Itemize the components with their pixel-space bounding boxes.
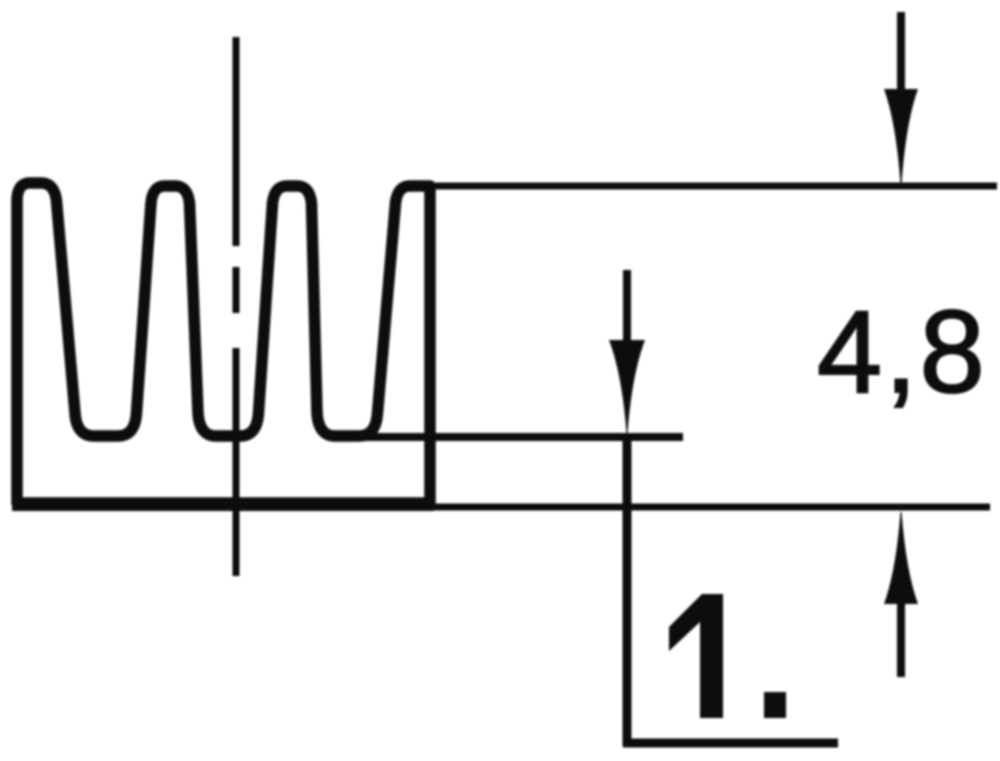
leader line horizontal (under label 1.): [623, 739, 838, 748]
dimension arrow, middle (points down to base top line): [609, 270, 645, 433]
centerline (vertical dash-dot axis): [233, 37, 240, 576]
label text 1. (drawn as paths, Arial-bold style digit without foot serif): [669, 594, 786, 718]
top extension line (fin top surface, extended right): [430, 183, 997, 190]
heatsink profile outline (cross-section with 4 fins): [17, 183, 430, 503]
slot-bottom extension line (base top surface): [350, 433, 683, 441]
bottom extension line (base bottom surface, extended right): [430, 504, 990, 511]
profile bottom edge reinforcement (thicker base line): [12, 498, 434, 511]
svg-text:4,8: 4,8: [817, 286, 987, 417]
leader line vertical (from base-top line down): [623, 437, 632, 746]
dimension arrow, bottom (points up to bottom line): [884, 512, 918, 677]
dimension arrow, top (points down to fin top line): [884, 12, 918, 184]
